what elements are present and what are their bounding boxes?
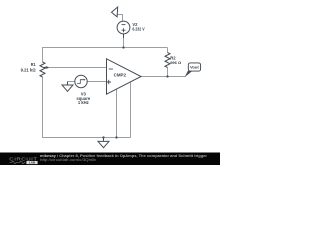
- junction node pin/bottom rail: [115, 136, 117, 138]
- svg-text:CMP2: CMP2: [114, 72, 127, 77]
- svg-text:996 Ω: 996 Ω: [170, 60, 182, 65]
- svg-text:R1: R1: [31, 62, 37, 67]
- resistor R1 body: [40, 62, 45, 77]
- wire V3 left lead: [68, 81, 75, 83]
- V2 plus sign: [122, 28, 126, 32]
- op-amp comparator CMP2 triangle: [107, 59, 142, 94]
- CircuitLab logo LAB chip: [26, 161, 37, 164]
- junction node V2/top rail: [122, 46, 124, 48]
- ground main triangle: [98, 141, 109, 147]
- Vout flag tail: [185, 71, 192, 78]
- ground at V3 stub: [67, 82, 69, 86]
- voltage source V3 circle: [75, 75, 87, 87]
- CMP2 plus input glyph: [106, 80, 111, 85]
- wire R2 top lead: [167, 48, 169, 53]
- V2 bottom terminal stub: [123, 34, 125, 38]
- svg-text:9.21 kΩ: 9.21 kΩ: [21, 67, 37, 72]
- svg-text:http://circuitlab.com/c/3Qh6b: http://circuitlab.com/c/3Qh6b: [40, 158, 96, 162]
- wire V2 top lead to flag: [118, 15, 123, 22]
- CircuitLab logo waveform: [10, 161, 26, 163]
- wire left rail upper: [42, 48, 44, 63]
- wire left rail lower: [42, 77, 44, 138]
- junction node R2/output: [166, 75, 168, 77]
- svg-text:6.232 V: 6.232 V: [132, 27, 144, 32]
- wire R2 bottom lead: [167, 68, 169, 77]
- wire CMP2 output: [141, 76, 186, 78]
- wire V2 bottom lead: [123, 38, 125, 48]
- wire top rail: [42, 47, 168, 49]
- V3 square-wave glyph: [77, 80, 85, 84]
- svg-text:Vout: Vout: [190, 65, 199, 70]
- svg-text:LAB: LAB: [29, 161, 36, 165]
- V2 minus sign: [122, 24, 126, 26]
- wire bottom rail: [42, 137, 131, 139]
- ground main stub: [103, 138, 105, 142]
- voltage source V2 circle: [117, 21, 130, 34]
- wire CMP2 power pin left: [116, 89, 118, 138]
- Vout flag box: [188, 63, 200, 71]
- ground at V3 triangle: [62, 85, 73, 91]
- attribution bar background: [0, 153, 220, 166]
- V3 glyph arrowhead: [84, 79, 86, 81]
- R1 wiper arrowhead: [43, 66, 48, 69]
- wire V3 to non-inverting input: [87, 81, 106, 83]
- junction node ground/bottom rail: [102, 136, 104, 138]
- wire R1 wiper to inverting input: [49, 67, 107, 69]
- ground flag at V2 (rotated triangle): [112, 7, 118, 17]
- svg-text:1 kHz: 1 kHz: [78, 100, 89, 105]
- CMP2 minus input glyph: [109, 68, 113, 70]
- R1 wiper stub: [47, 67, 48, 69]
- wire CMP2 power pin right: [130, 82, 132, 137]
- resistor R2 body: [165, 53, 170, 68]
